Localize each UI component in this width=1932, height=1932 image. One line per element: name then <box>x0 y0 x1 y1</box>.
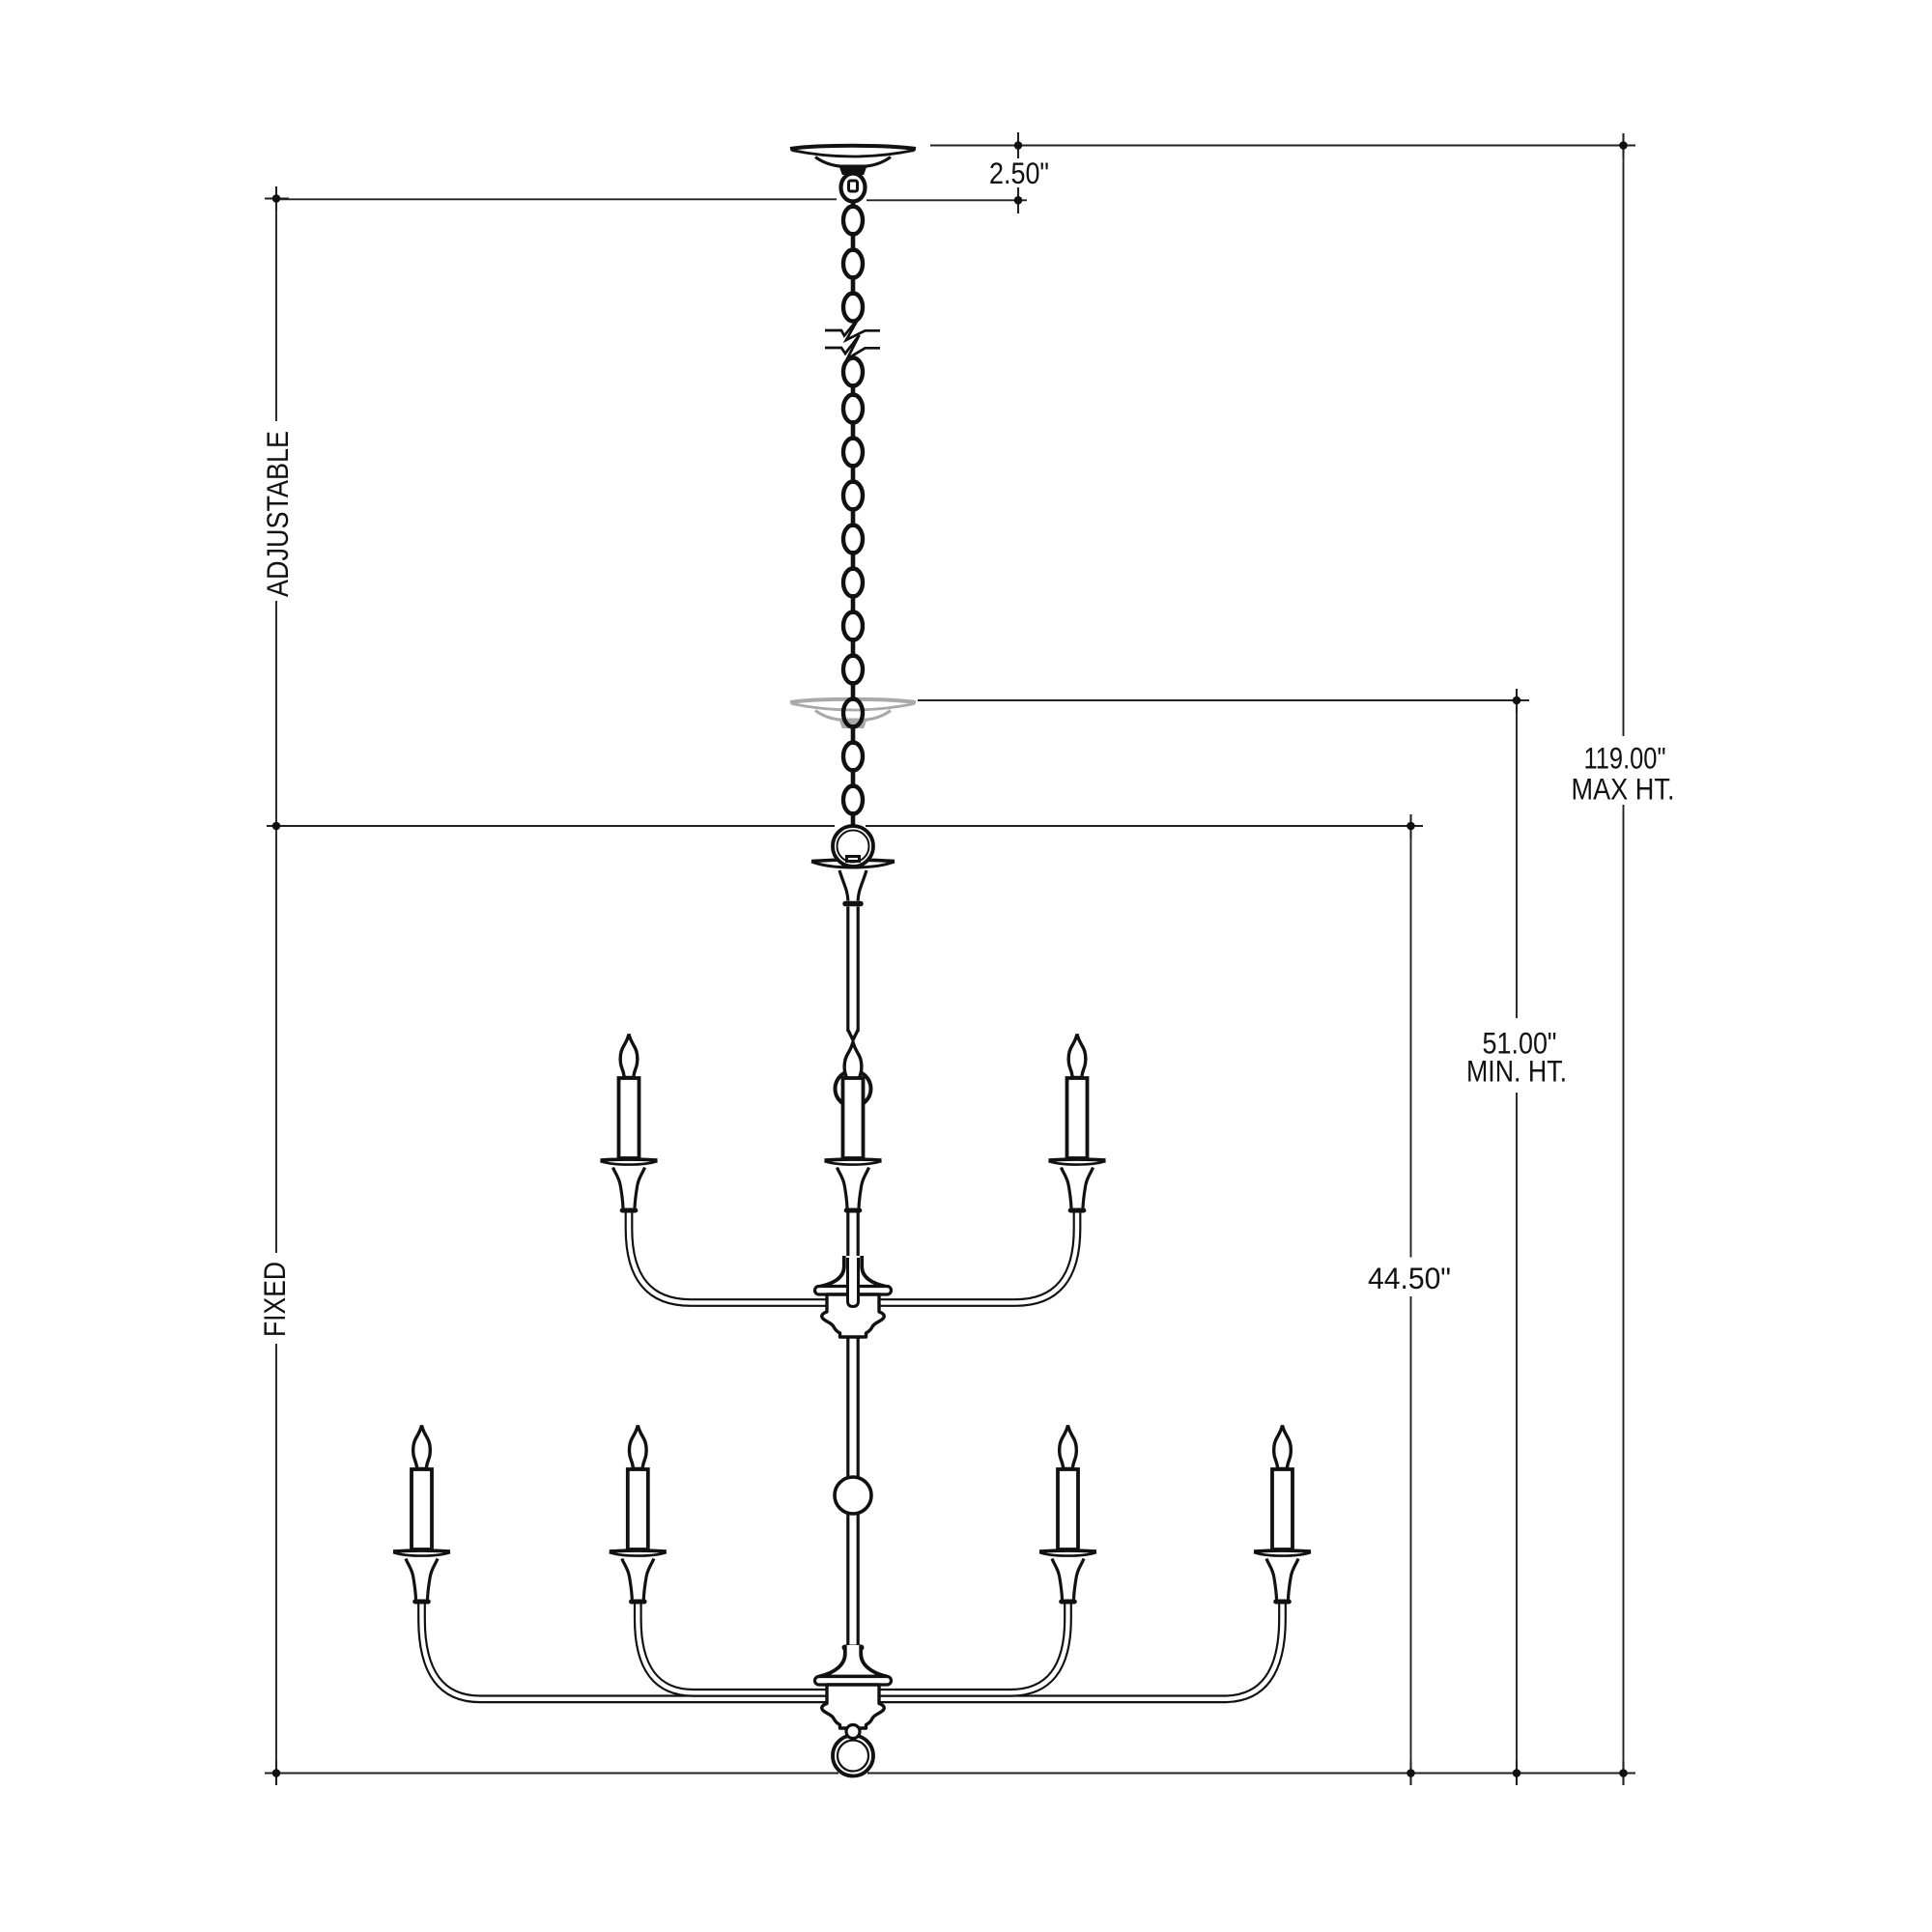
svg-text:MIN. HT.: MIN. HT. <box>1466 1054 1567 1089</box>
svg-text:119.00": 119.00" <box>1584 741 1666 776</box>
svg-text:44.50": 44.50" <box>1368 1261 1451 1295</box>
svg-text:MAX HT.: MAX HT. <box>1572 772 1675 807</box>
svg-text:FIXED: FIXED <box>257 1262 292 1337</box>
svg-text:2.50": 2.50" <box>989 156 1049 190</box>
svg-text:ADJUSTABLE: ADJUSTABLE <box>260 431 295 597</box>
